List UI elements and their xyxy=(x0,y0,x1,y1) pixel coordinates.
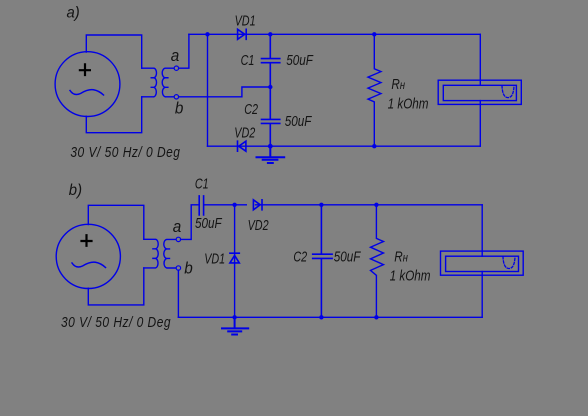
junction top rail / VD1 branch (circuit b) xyxy=(232,203,236,207)
svg-text:VD2: VD2 xyxy=(248,216,270,233)
svg-text:30 V/ 50 Hz/ 0 Deg: 30 V/ 50 Hz/ 0 Deg xyxy=(61,314,171,331)
junction top rail / VD2 branch (circuit a) xyxy=(205,32,209,36)
capacitor C2 (circuit a) xyxy=(262,87,280,146)
sine symbol inside source a xyxy=(70,90,104,95)
svg-text:C1: C1 xyxy=(241,51,255,68)
resistor RH zigzag (circuit b) xyxy=(371,205,384,317)
junction bottom rail / resistor (circuit b) xyxy=(374,315,378,319)
diode VD2 (circuit b) xyxy=(253,200,262,210)
wire bottom rail (circuit a) xyxy=(208,145,481,147)
capacitor C2 (circuit b) xyxy=(313,205,332,317)
wire node a to top rail (circuit a) xyxy=(179,34,189,68)
oscilloscope dashed U curve (circuit a) xyxy=(502,86,514,98)
wire to oscilloscope top (circuit b) xyxy=(481,205,483,256)
wire VD2 branch vertical (circuit a) xyxy=(207,34,209,146)
ground symbol (circuit a) xyxy=(257,146,285,163)
transformer T1 primary coil (circuit a) xyxy=(142,68,157,97)
svg-text:50uF: 50uF xyxy=(286,52,313,69)
wire node b to C1 bottom junction (circuit a) xyxy=(179,87,271,97)
diode VD1 (circuit a) xyxy=(238,29,247,39)
ground symbol (circuit b) xyxy=(222,317,248,334)
wire node b down to bottom rail (circuit b) xyxy=(177,270,179,317)
node b terminal circle (circuit a) xyxy=(174,95,178,99)
node a terminal circle (circuit b) xyxy=(176,237,180,241)
diode VD1 (circuit b) xyxy=(230,253,239,263)
wire source b bottom xyxy=(88,268,144,305)
transformer T2 primary coil (circuit b) xyxy=(144,239,158,268)
wire source a top xyxy=(86,35,141,68)
transformer T2 secondary coil (circuit b) xyxy=(164,239,179,268)
svg-text:C2: C2 xyxy=(244,100,258,117)
junction bottom rail / C2 (circuit b) xyxy=(319,315,323,319)
junction bottom rail / resistor (circuit a) xyxy=(372,144,376,148)
svg-text:Rн: Rн xyxy=(394,248,408,265)
oscilloscope inner screen (circuit a) xyxy=(443,85,516,100)
junction top rail / resistor (circuit a) xyxy=(372,32,376,36)
wire source b top xyxy=(88,205,144,239)
junction top rail / C2 (circuit b) xyxy=(319,203,323,207)
svg-text:b: b xyxy=(175,99,184,118)
svg-text:b): b) xyxy=(69,181,82,199)
wire source a bottom xyxy=(86,97,141,133)
svg-text:b: b xyxy=(184,259,193,278)
junction VD1 cathode / C1 top (circuit a) xyxy=(268,32,272,36)
wire top rail (circuit a) xyxy=(189,33,480,35)
plus polarity mark source b xyxy=(82,235,92,246)
svg-text:50uF: 50uF xyxy=(285,113,312,130)
svg-text:Rн: Rн xyxy=(391,76,405,93)
svg-text:a: a xyxy=(171,46,180,65)
AC source V1 (circuit b) xyxy=(56,224,120,288)
oscilloscope dashed U curve (circuit b) xyxy=(503,257,515,269)
diode VD2 (circuit a) xyxy=(238,141,246,151)
oscilloscope inner screen (circuit b) xyxy=(446,256,519,271)
wire node a to C1 (circuit b) xyxy=(181,205,199,240)
wire to oscilloscope top (circuit a) xyxy=(479,34,481,85)
sine symbol inside source b xyxy=(72,262,106,267)
resistor RH zigzag (circuit a) xyxy=(368,34,381,146)
wire VD1 branch vertical (circuit b) xyxy=(234,205,236,317)
junction top rail / resistor (circuit b) xyxy=(374,203,378,207)
svg-text:VD2: VD2 xyxy=(234,124,256,141)
oscilloscope probe instrument XSC1 outer body (circuit a) xyxy=(438,80,521,104)
junction C1 bottom / C2 top / node b wire (circuit a) xyxy=(268,85,272,89)
svg-text:1 kOhm: 1 kOhm xyxy=(388,95,429,112)
AC source V1 (circuit a) xyxy=(55,52,120,117)
svg-text:VD1: VD1 xyxy=(235,12,256,29)
capacitor C1 (circuit a) xyxy=(262,34,280,87)
wire from oscilloscope bottom (circuit a) xyxy=(479,101,481,147)
svg-text:VD1: VD1 xyxy=(204,250,225,267)
svg-text:a): a) xyxy=(67,4,80,22)
svg-text:C1: C1 xyxy=(195,175,209,192)
wire bottom rail (circuit b) xyxy=(178,316,482,318)
oscilloscope probe instrument XSC2 outer body (circuit b) xyxy=(441,251,524,275)
svg-text:50uF: 50uF xyxy=(195,215,222,232)
capacitor C1 plates (circuit b) xyxy=(199,196,203,215)
svg-text:30 V/ 50 Hz/ 0 Deg: 30 V/ 50 Hz/ 0 Deg xyxy=(70,144,180,161)
junction bottom rail / ground (circuit b) xyxy=(232,315,236,319)
svg-text:50uF: 50uF xyxy=(334,248,361,265)
node b terminal circle (circuit b) xyxy=(176,266,180,270)
plus polarity mark source a xyxy=(80,64,90,75)
wire C1 to VD2 and top rail (circuit b) xyxy=(205,204,483,206)
svg-text:a: a xyxy=(173,217,182,236)
junction bottom rail / ground (circuit a) xyxy=(268,144,273,149)
svg-text:C2: C2 xyxy=(293,248,307,265)
svg-text:1 kOhm: 1 kOhm xyxy=(390,267,431,284)
wire from oscilloscope bottom (circuit b) xyxy=(481,272,483,318)
transformer T1 secondary coil (circuit a) xyxy=(162,68,176,97)
node a terminal circle (circuit a) xyxy=(174,66,178,70)
